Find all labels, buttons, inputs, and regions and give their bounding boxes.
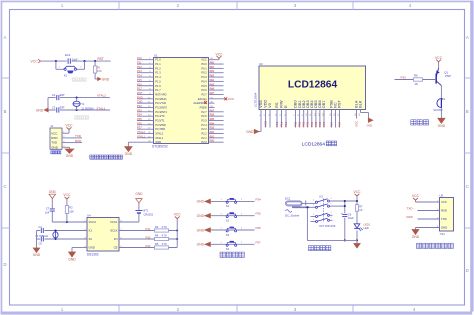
svg-text:P3.1/TxD: P3.1/TxD xyxy=(155,101,166,105)
svg-text:P0.4: P0.4 xyxy=(201,79,207,83)
svg-text:GND: GND xyxy=(155,140,161,144)
svg-text:XTAL1: XTAL1 xyxy=(155,136,163,140)
svg-text:P36: P36 xyxy=(256,226,262,230)
svg-text:P0.5: P0.5 xyxy=(201,84,207,88)
svg-text:C7: C7 xyxy=(46,207,50,211)
svg-text:GND: GND xyxy=(51,145,59,149)
svg-text:P33: P33 xyxy=(401,75,407,79)
svg-text:P2.7: P2.7 xyxy=(201,110,207,114)
svg-text:VCC: VCC xyxy=(435,56,443,60)
svg-text:P34: P34 xyxy=(137,113,142,117)
svg-text:P17: P17 xyxy=(137,87,142,91)
svg-text:RST: RST xyxy=(98,57,104,61)
svg-text:DC_Socket: DC_Socket xyxy=(285,213,299,217)
svg-text:EC1: EC1 xyxy=(65,53,71,57)
svg-text:CE: CE xyxy=(114,246,118,250)
svg-text:DC1: DC1 xyxy=(285,197,291,201)
svg-text:GND: GND xyxy=(197,200,205,204)
svg-text:P35: P35 xyxy=(256,212,262,216)
svg-text:P02: P02 xyxy=(210,69,215,73)
svg-text:GND: GND xyxy=(197,228,205,232)
svg-text:GND: GND xyxy=(197,214,205,218)
svg-text:RST: RST xyxy=(338,100,342,108)
svg-text:VCC: VCC xyxy=(228,97,235,101)
svg-text:P0.3: P0.3 xyxy=(201,75,207,79)
svg-text:P07: P07 xyxy=(322,121,326,127)
svg-text:10K: 10K xyxy=(97,69,102,73)
svg-text:P2.0: P2.0 xyxy=(201,140,207,144)
svg-text:VCC: VCC xyxy=(354,190,362,194)
svg-text:CR2032: CR2032 xyxy=(144,212,154,216)
svg-text:P2.6: P2.6 xyxy=(201,114,207,118)
svg-text:VCC: VCC xyxy=(264,120,268,127)
svg-text:30P: 30P xyxy=(60,93,65,97)
svg-text:P1.3: P1.3 xyxy=(155,71,161,75)
svg-text:GND: GND xyxy=(197,243,205,247)
svg-text:P22: P22 xyxy=(210,130,215,134)
svg-text:C2: C2 xyxy=(52,93,56,97)
svg-text:P2.5: P2.5 xyxy=(201,118,207,122)
svg-text:U1: U1 xyxy=(154,53,158,57)
svg-text:R4: R4 xyxy=(155,234,159,238)
svg-text:D: D xyxy=(3,262,6,267)
svg-text:P0.2: P0.2 xyxy=(201,71,207,75)
svg-text:R5: R5 xyxy=(155,242,159,246)
svg-text:DS1302: DS1302 xyxy=(87,253,99,257)
svg-text:P0.1: P0.1 xyxy=(201,66,207,70)
svg-text:104: 104 xyxy=(45,210,50,214)
svg-text:RXD: RXD xyxy=(441,209,447,213)
svg-text:S1: S1 xyxy=(226,204,230,208)
svg-text:P3.7/RD: P3.7/RD xyxy=(155,127,165,131)
svg-text:VCC: VCC xyxy=(216,52,224,56)
svg-text:TXD: TXD xyxy=(51,141,58,145)
svg-text:R/W: R/W xyxy=(280,100,284,108)
svg-text:4.7K: 4.7K xyxy=(162,234,168,238)
svg-text:RST/VPD: RST/VPD xyxy=(155,92,166,96)
svg-text:GND: GND xyxy=(367,125,373,128)
svg-text:P27: P27 xyxy=(338,121,342,127)
svg-text:P27: P27 xyxy=(210,108,215,112)
svg-text:P34: P34 xyxy=(256,197,262,201)
svg-text:P1.5: P1.5 xyxy=(155,79,161,83)
svg-text:1K: 1K xyxy=(415,82,419,86)
svg-text:XTAL1: XTAL1 xyxy=(137,134,146,138)
svg-text:P16: P16 xyxy=(137,82,142,86)
svg-text:C6: C6 xyxy=(348,212,352,216)
svg-text:VSS: VSS xyxy=(259,100,263,108)
svg-text:P2.3: P2.3 xyxy=(201,127,207,131)
svg-text:GND: GND xyxy=(441,226,447,230)
svg-text:LCD12864: LCD12864 xyxy=(253,92,257,107)
svg-text:VCC: VCC xyxy=(63,193,71,197)
svg-text:XTAL2: XTAL2 xyxy=(155,132,163,136)
svg-text:4.7K: 4.7K xyxy=(162,225,168,229)
svg-text:VCC: VCC xyxy=(412,194,420,198)
svg-text:RST: RST xyxy=(137,91,143,95)
svg-text:GND: GND xyxy=(68,258,76,262)
svg-text:C3: C3 xyxy=(52,106,56,110)
svg-text:P12: P12 xyxy=(284,121,288,127)
svg-text:VCC1: VCC1 xyxy=(110,220,118,224)
svg-text:P07: P07 xyxy=(210,91,215,95)
svg-text:R7: R7 xyxy=(359,204,363,208)
svg-text:P24: P24 xyxy=(210,121,215,125)
svg-text:P12: P12 xyxy=(137,65,142,69)
svg-text:S4: S4 xyxy=(226,247,230,251)
svg-text:P14: P14 xyxy=(137,74,142,78)
svg-text:P00: P00 xyxy=(210,61,215,65)
svg-text:S2: S2 xyxy=(226,219,230,223)
svg-text:A: A xyxy=(466,35,469,40)
svg-text:P3.2/INT0: P3.2/INT0 xyxy=(155,105,167,109)
svg-text:PNP: PNP xyxy=(445,74,451,78)
svg-text:P0.0: P0.0 xyxy=(201,62,207,66)
svg-text:P1.4: P1.4 xyxy=(155,75,161,79)
svg-text:30P: 30P xyxy=(60,106,65,110)
svg-text:R2: R2 xyxy=(69,206,73,210)
svg-text:VCC2: VCC2 xyxy=(89,220,97,224)
svg-text:KFT DIP-6X6: KFT DIP-6X6 xyxy=(320,224,336,228)
svg-text:R3: R3 xyxy=(155,225,159,229)
svg-text:P23: P23 xyxy=(210,126,215,130)
svg-text:P30: P30 xyxy=(146,235,151,239)
svg-text:P20: P20 xyxy=(210,139,215,143)
svg-text:10uF: 10uF xyxy=(72,57,78,61)
svg-text:1K: 1K xyxy=(359,208,362,212)
svg-text:P3.3/INT1: P3.3/INT1 xyxy=(155,110,167,114)
svg-text:PSEN: PSEN xyxy=(200,105,207,109)
svg-text:LCD12864: LCD12864 xyxy=(288,80,338,91)
svg-text:C5: C5 xyxy=(39,242,43,246)
svg-text:P3.0/RxD: P3.0/RxD xyxy=(155,97,166,101)
svg-text:B: B xyxy=(4,109,7,114)
svg-text:K2: K2 xyxy=(320,194,324,198)
svg-text:P1.6: P1.6 xyxy=(155,84,161,88)
svg-text:RXD: RXD xyxy=(51,136,58,140)
svg-text:P03: P03 xyxy=(210,74,215,78)
svg-text:+: + xyxy=(341,211,343,215)
svg-text:XTAL1: XTAL1 xyxy=(96,106,105,110)
svg-text:P2.1: P2.1 xyxy=(201,136,207,140)
svg-text:GND: GND xyxy=(33,253,41,257)
svg-text:U4: U4 xyxy=(87,213,91,217)
svg-text:J1: J1 xyxy=(50,124,53,128)
svg-text:D: D xyxy=(466,268,469,273)
svg-text:P06: P06 xyxy=(210,87,215,91)
svg-text:P01: P01 xyxy=(210,65,215,69)
svg-text:GND: GND xyxy=(125,152,133,156)
svg-text:U3: U3 xyxy=(259,62,263,66)
svg-text:C: C xyxy=(3,184,6,189)
svg-text:P2.4: P2.4 xyxy=(201,123,207,127)
svg-text:YS1: YS1 xyxy=(440,232,446,236)
svg-text:SCLK: SCLK xyxy=(110,229,117,233)
svg-text:TXD: TXD xyxy=(137,100,142,104)
svg-text:P32: P32 xyxy=(137,104,142,108)
svg-text:P1.2: P1.2 xyxy=(155,66,161,70)
svg-text:11.0592M: 11.0592M xyxy=(81,106,94,110)
svg-text:P32: P32 xyxy=(146,244,151,248)
svg-text:GND: GND xyxy=(102,77,110,81)
svg-text:GND: GND xyxy=(36,108,44,112)
svg-text:R6: R6 xyxy=(414,74,418,78)
svg-text:LED: LED xyxy=(364,226,369,230)
svg-text:VCC: VCC xyxy=(441,200,447,204)
svg-text:P2.2: P2.2 xyxy=(201,132,207,136)
svg-text:EA/Vpp: EA/Vpp xyxy=(198,97,207,101)
svg-text:P26: P26 xyxy=(210,113,215,117)
svg-text:GND: GND xyxy=(246,130,254,134)
svg-text:GND: GND xyxy=(438,124,446,128)
svg-text:TXD: TXD xyxy=(441,217,447,221)
svg-text:V0: V0 xyxy=(268,103,272,108)
svg-text:VCC: VCC xyxy=(201,58,207,62)
svg-text:VCC: VCC xyxy=(31,59,39,63)
svg-text:P31: P31 xyxy=(146,227,151,231)
svg-text:10K: 10K xyxy=(69,209,74,213)
svg-text:P05: P05 xyxy=(210,82,215,86)
svg-text:P13: P13 xyxy=(137,69,142,73)
svg-text:TXD: TXD xyxy=(407,207,414,211)
svg-text:P1.0: P1.0 xyxy=(155,58,161,62)
svg-text:BT1: BT1 xyxy=(144,209,149,213)
svg-text:P1.7: P1.7 xyxy=(155,88,161,92)
svg-text:GND: GND xyxy=(412,235,420,239)
svg-text:GND: GND xyxy=(135,192,143,196)
svg-text:C: C xyxy=(466,184,469,189)
svg-text:LED1: LED1 xyxy=(364,223,371,227)
svg-text:VDD: VDD xyxy=(264,100,268,108)
svg-text:P11: P11 xyxy=(137,61,142,65)
svg-text:4.7K: 4.7K xyxy=(162,242,168,246)
svg-text:X1: X1 xyxy=(89,229,93,233)
svg-text:GND: GND xyxy=(89,246,95,250)
svg-text:U5: U5 xyxy=(440,193,444,197)
svg-text:P0.6: P0.6 xyxy=(201,88,207,92)
svg-text:P3.5/T1: P3.5/T1 xyxy=(155,118,165,122)
svg-text:VCC: VCC xyxy=(66,124,74,128)
svg-text:RS: RS xyxy=(275,102,279,108)
svg-text:P1.1: P1.1 xyxy=(155,62,161,66)
svg-text:A: A xyxy=(4,35,7,40)
svg-text:RXD: RXD xyxy=(407,215,414,219)
svg-text:P24: P24 xyxy=(330,121,334,127)
svg-text:S3: S3 xyxy=(226,233,230,237)
svg-text:VCC: VCC xyxy=(355,120,359,127)
svg-text:GND: GND xyxy=(49,190,57,194)
svg-text:STC89C52: STC89C52 xyxy=(152,145,168,149)
svg-text:P10: P10 xyxy=(275,121,279,127)
svg-text:P10: P10 xyxy=(137,56,142,60)
svg-text:TXD: TXD xyxy=(75,134,82,138)
svg-text:K1: K1 xyxy=(64,74,68,78)
svg-text:P3.4/T0: P3.4/T0 xyxy=(155,114,165,118)
svg-text:RXD: RXD xyxy=(75,139,82,143)
svg-text:LCD12864: LCD12864 xyxy=(302,141,326,147)
svg-text:P3.6/WR: P3.6/WR xyxy=(155,123,166,127)
svg-text:RXD: RXD xyxy=(137,95,143,99)
svg-text:P15: P15 xyxy=(137,78,142,82)
svg-text:P11: P11 xyxy=(280,122,284,127)
svg-text:B: B xyxy=(466,109,469,114)
svg-text:VCC: VCC xyxy=(51,131,58,135)
svg-text:B1: B1 xyxy=(442,97,446,101)
svg-text:P21: P21 xyxy=(210,134,215,138)
svg-text:10uF: 10uF xyxy=(348,216,354,220)
svg-text:X2: X2 xyxy=(89,237,93,241)
svg-text:VCC: VCC xyxy=(174,213,182,217)
svg-text:P37: P37 xyxy=(256,240,262,244)
svg-text:XTAL2: XTAL2 xyxy=(97,94,106,98)
svg-text:P37: P37 xyxy=(137,126,142,130)
svg-text:XTAL2: XTAL2 xyxy=(137,130,146,134)
svg-text:P35: P35 xyxy=(137,117,142,121)
svg-text:C4: C4 xyxy=(39,225,43,229)
svg-text:BLK: BLK xyxy=(359,100,363,108)
svg-text:DB7: DB7 xyxy=(322,100,326,107)
svg-text:P25: P25 xyxy=(210,117,215,121)
svg-text:P04: P04 xyxy=(210,78,215,82)
svg-text:P0.7: P0.7 xyxy=(201,92,207,96)
svg-text:32.768kHz: 32.768kHz xyxy=(35,234,49,238)
svg-text:GND: GND xyxy=(66,154,74,158)
svg-text:P33: P33 xyxy=(137,108,142,112)
svg-text:P36: P36 xyxy=(137,121,142,125)
